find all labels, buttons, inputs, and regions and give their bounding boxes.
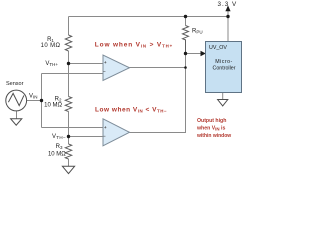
svg-text:UV_OV: UV_OV — [209, 45, 227, 51]
svg-text:VTH−: VTH− — [52, 134, 66, 140]
svg-text:+: + — [104, 60, 107, 65]
svg-text:Low when VIN > VTH+: Low when VIN > VTH+ — [95, 41, 173, 48]
svg-text:Low when VIN < VTH−: Low when VIN < VTH− — [95, 106, 167, 113]
svg-text:−: − — [103, 134, 106, 139]
svg-text:−: − — [103, 69, 106, 74]
svg-text:+: + — [104, 125, 107, 130]
svg-text:R3: R3 — [56, 144, 63, 150]
svg-text:Controller: Controller — [213, 66, 236, 72]
svg-text:Micro-: Micro- — [215, 59, 232, 65]
svg-text:when VIN is: when VIN is — [196, 125, 225, 131]
svg-text:VIN: VIN — [29, 93, 38, 99]
svg-text:Output high: Output high — [197, 118, 226, 124]
svg-text:3.3 V: 3.3 V — [218, 1, 238, 8]
svg-text:10 MΩ: 10 MΩ — [48, 152, 66, 158]
svg-text:within window: within window — [196, 133, 231, 139]
svg-text:RPU: RPU — [192, 29, 203, 35]
svg-text:Sensor: Sensor — [6, 81, 24, 87]
svg-text:10 MΩ: 10 MΩ — [44, 103, 62, 109]
svg-text:10 MΩ: 10 MΩ — [41, 43, 61, 49]
svg-text:VTH+: VTH+ — [45, 61, 58, 67]
